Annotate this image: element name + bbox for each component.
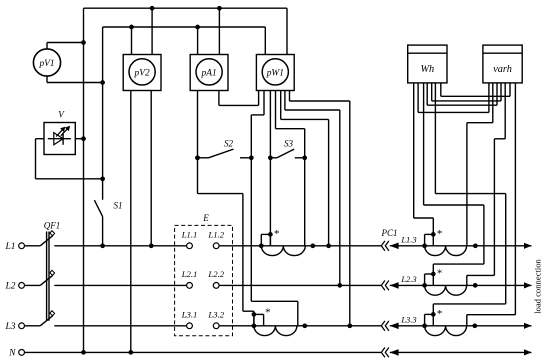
svg-text:QF1: QF1	[44, 220, 61, 230]
svg-text:S3: S3	[284, 139, 294, 149]
svg-text:Wh: Wh	[420, 64, 434, 75]
svg-text:L1.1: L1.1	[181, 230, 198, 240]
svg-text:L2: L2	[4, 282, 15, 292]
svg-text:S1: S1	[114, 201, 123, 211]
svg-text:*: *	[437, 267, 443, 279]
svg-text:N: N	[8, 349, 16, 359]
svg-text:L1: L1	[4, 242, 15, 252]
svg-text:L3.3: L3.3	[400, 314, 416, 324]
svg-text:L3.1: L3.1	[181, 310, 198, 320]
svg-text:L2.3: L2.3	[400, 274, 416, 284]
svg-text:*: *	[265, 307, 271, 319]
svg-text:L1.2: L1.2	[207, 230, 224, 240]
svg-text:L3: L3	[4, 322, 15, 332]
svg-text:*: *	[437, 308, 443, 320]
svg-text:PC1: PC1	[380, 228, 397, 238]
svg-text:pV2: pV2	[134, 68, 150, 78]
svg-text:L3.2: L3.2	[207, 310, 224, 320]
svg-text:pA1: pA1	[201, 68, 217, 78]
svg-text:pW1: pW1	[266, 68, 284, 78]
svg-text:*: *	[274, 228, 280, 240]
svg-text:load connection: load connection	[533, 258, 543, 313]
svg-text:S2: S2	[224, 139, 234, 149]
svg-text:E: E	[202, 213, 209, 223]
svg-text:varh: varh	[493, 64, 512, 75]
svg-text:L2.2: L2.2	[207, 269, 224, 279]
svg-text:pV1: pV1	[38, 59, 54, 69]
svg-text:L1.3: L1.3	[400, 234, 416, 244]
svg-text:L2.1: L2.1	[181, 269, 198, 279]
svg-text:*: *	[437, 228, 443, 240]
